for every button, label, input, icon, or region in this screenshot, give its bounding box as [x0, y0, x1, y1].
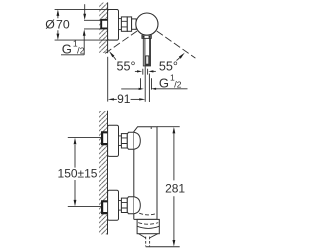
- dimension 91 extension line: [107, 57, 109, 102]
- outlet taper: [139, 234, 158, 238]
- outlet centerline (top view): [144, 66, 146, 102]
- union dome upper (side view): [134, 132, 141, 149]
- supply pipe edge lines (G1/2 extension): [84, 20, 101, 29]
- union cone lower (side view): [127, 197, 134, 214]
- handle width dimension arrows: [135, 70, 138, 72]
- svg-text:Ø70: Ø70: [45, 18, 70, 32]
- body bottom line: [134, 218, 157, 220]
- dimension 91 line and arrows: [108, 98, 114, 100]
- outlet cup hidden dashed arc: [138, 223, 158, 225]
- adapter ring (top view): [132, 19, 137, 29]
- G1/2 outlet leader line: [148, 74, 150, 103]
- pipe nipple upper (side view): [119, 136, 122, 146]
- 150 dimension extension line upper: [68, 136, 102, 138]
- dimension Ø70 line and arrowheads: [57, 15, 59, 35]
- svg-text:150±15: 150±15: [58, 167, 98, 181]
- body top seam tick: [150, 127, 152, 129]
- outlet cup inner arc: [137, 226, 159, 228]
- bottom reference line: [146, 246, 180, 248]
- svg-text:55°: 55°: [116, 60, 135, 74]
- outlet side lines (top view): [141, 78, 152, 89]
- handle base pins: [142, 36, 144, 38]
- supply elbow in wall lower (side view): [102, 201, 107, 213]
- swivel arc arrow left: [109, 51, 114, 57]
- 281 extension line top: [157, 126, 180, 128]
- pipe nipple lower (side view): [119, 201, 122, 211]
- G1/2 inlet leader lower (top view): [83, 36, 85, 55]
- lever swivel dashed line left 55deg: [104, 31, 138, 55]
- hex nut lower (side view): [121, 198, 127, 212]
- wall face line (top view): [107, 2, 109, 53]
- hex nut facets (top view): [121, 21, 127, 27]
- handle shaft outer (top view): [143, 38, 150, 66]
- hose nipple dashed: [146, 237, 150, 247]
- hex nut (top view): [121, 17, 127, 31]
- body outline (side view): [134, 127, 157, 220]
- wall hatch (side view): [99, 111, 108, 235]
- dimension 150±15 line and arrows: [74, 145, 76, 202]
- handle end button: [146, 56, 149, 64]
- escutcheon (top view): [108, 10, 119, 41]
- hex nut upper (side view): [121, 134, 127, 148]
- swivel arc stub right: [177, 58, 180, 61]
- outlet cup (side view): [137, 219, 159, 233]
- dimension Ø70 extension lines: [55, 9, 118, 40]
- pipe nipple (top view): [119, 19, 122, 30]
- supply elbow in wall (top view): [101, 20, 107, 29]
- svg-text:G1/2: G1/2: [62, 39, 85, 57]
- svg-text:91: 91: [117, 92, 131, 106]
- hidden outlet dashed arc in body: [139, 213, 157, 215]
- outlet dimension arrows (G1/2): [121, 88, 139, 90]
- union cone upper (side view): [127, 132, 134, 149]
- collar (top view): [127, 17, 131, 31]
- dimension 281 line and arrows: [173, 133, 175, 240]
- lever swivel dashed line right 55deg: [157, 31, 196, 58]
- handle base (top view): [142, 35, 151, 38]
- G1/2 inlet underline: [61, 54, 84, 56]
- handle shaft inner rod: [145, 38, 150, 65]
- swivel arc arrow right: [179, 53, 185, 59]
- G1/2 inlet leader upper (top view): [84, 4, 86, 14]
- escutcheon upper (side view): [108, 125, 119, 156]
- union dome lower (side view): [134, 197, 141, 214]
- escutcheon lower (side view): [108, 190, 119, 220]
- wall face line (side view): [107, 111, 109, 235]
- handle width dimension ticks: [143, 69, 148, 75]
- svg-text:55°: 55°: [159, 59, 178, 73]
- svg-text:G1/2: G1/2: [159, 73, 182, 91]
- 150 dimension extension line lower: [68, 206, 102, 208]
- wall hatch (top view): [99, 3, 107, 53]
- svg-text:281: 281: [165, 182, 185, 196]
- swivel arc stub left: [113, 57, 116, 60]
- supply elbow in wall upper (side view): [102, 132, 107, 144]
- mixer body circle (top view): [136, 13, 158, 35]
